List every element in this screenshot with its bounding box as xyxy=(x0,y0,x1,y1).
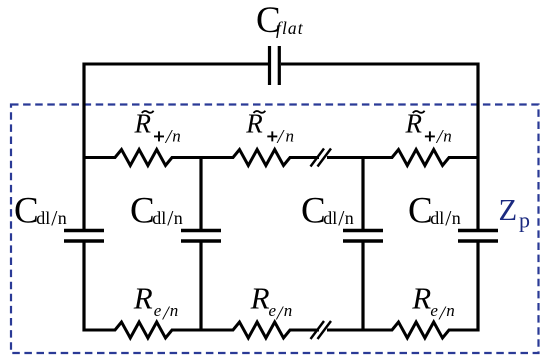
svg-text:n: n xyxy=(172,126,181,145)
wire: top row after break xyxy=(327,156,363,159)
wire: right vertical lower (branch 4) xyxy=(476,243,479,332)
svg-text:C: C xyxy=(130,191,155,232)
svg-text:R: R xyxy=(250,281,270,316)
svg-text:Z: Z xyxy=(499,193,518,227)
svg-text:n: n xyxy=(286,126,295,145)
wire: bottom row after break xyxy=(327,329,363,332)
resistor R~+/n #3 (top row right) xyxy=(363,150,478,166)
dashed boundary box Zp xyxy=(11,105,539,354)
svg-text:C: C xyxy=(14,191,39,232)
wire: left vertical upper (branch 1, top wire to top cap plate) xyxy=(82,63,85,230)
wire: top-left horizontal (to C_flat left plate) xyxy=(83,63,269,66)
svg-text:dl: dl xyxy=(36,208,50,228)
capacitor C_dl/n #2 plates xyxy=(181,229,221,232)
svg-text:e: e xyxy=(154,301,162,320)
resistor R~+/n #2 (top row middle) xyxy=(201,150,319,166)
svg-text:n: n xyxy=(284,301,293,320)
svg-text:e: e xyxy=(269,301,277,320)
wire break marks (top row) xyxy=(311,149,325,167)
svg-text:e: e xyxy=(430,301,438,320)
wire: left vertical lower (cap bottom plate to bottom wire) xyxy=(82,243,85,332)
svg-text:dl: dl xyxy=(152,208,166,228)
resistor R_e/n #1 (bottom row left) xyxy=(84,322,201,338)
capacitor C_dl/n #4 plates xyxy=(458,229,498,232)
resistor R_e/n #3 (bottom row right) xyxy=(363,322,480,338)
wire: top-right horizontal (from C_flat right plate) xyxy=(281,63,480,66)
svg-text:n: n xyxy=(174,208,183,228)
resistor R~+/n #1 (top row left) xyxy=(84,150,201,166)
wire: branch 3 vertical lower xyxy=(361,243,364,332)
resistor R_e/n #2 (bottom row middle) xyxy=(201,322,319,338)
wire: right vertical upper (branch 4) xyxy=(476,63,479,230)
capacitor C_flat plates xyxy=(268,46,271,85)
wire: branch 3 vertical upper (node to cap) xyxy=(361,156,364,229)
svg-text:C: C xyxy=(301,191,326,232)
svg-text:n: n xyxy=(345,208,354,228)
svg-text:n: n xyxy=(452,208,461,228)
wire: branch 2 vertical upper (node to cap) xyxy=(199,156,202,229)
capacitor C_dl/n #1 plates xyxy=(64,229,104,232)
svg-text:f‌lat: f‌lat xyxy=(276,18,304,38)
svg-text:dl: dl xyxy=(323,208,337,228)
svg-text:n: n xyxy=(58,208,67,228)
svg-text:dl: dl xyxy=(430,208,444,228)
wire break marks (bottom row) xyxy=(311,321,325,339)
svg-text:R: R xyxy=(411,281,431,316)
wire: branch 2 vertical lower xyxy=(199,243,202,332)
svg-text:R: R xyxy=(133,281,153,316)
capacitor C_dl/n #3 plates xyxy=(343,229,383,232)
svg-text:n: n xyxy=(443,126,452,145)
svg-text:C: C xyxy=(408,191,433,232)
svg-text:n: n xyxy=(446,301,455,320)
svg-text:n: n xyxy=(170,301,179,320)
svg-text:p: p xyxy=(519,208,530,233)
svg-text:/: / xyxy=(277,126,286,148)
